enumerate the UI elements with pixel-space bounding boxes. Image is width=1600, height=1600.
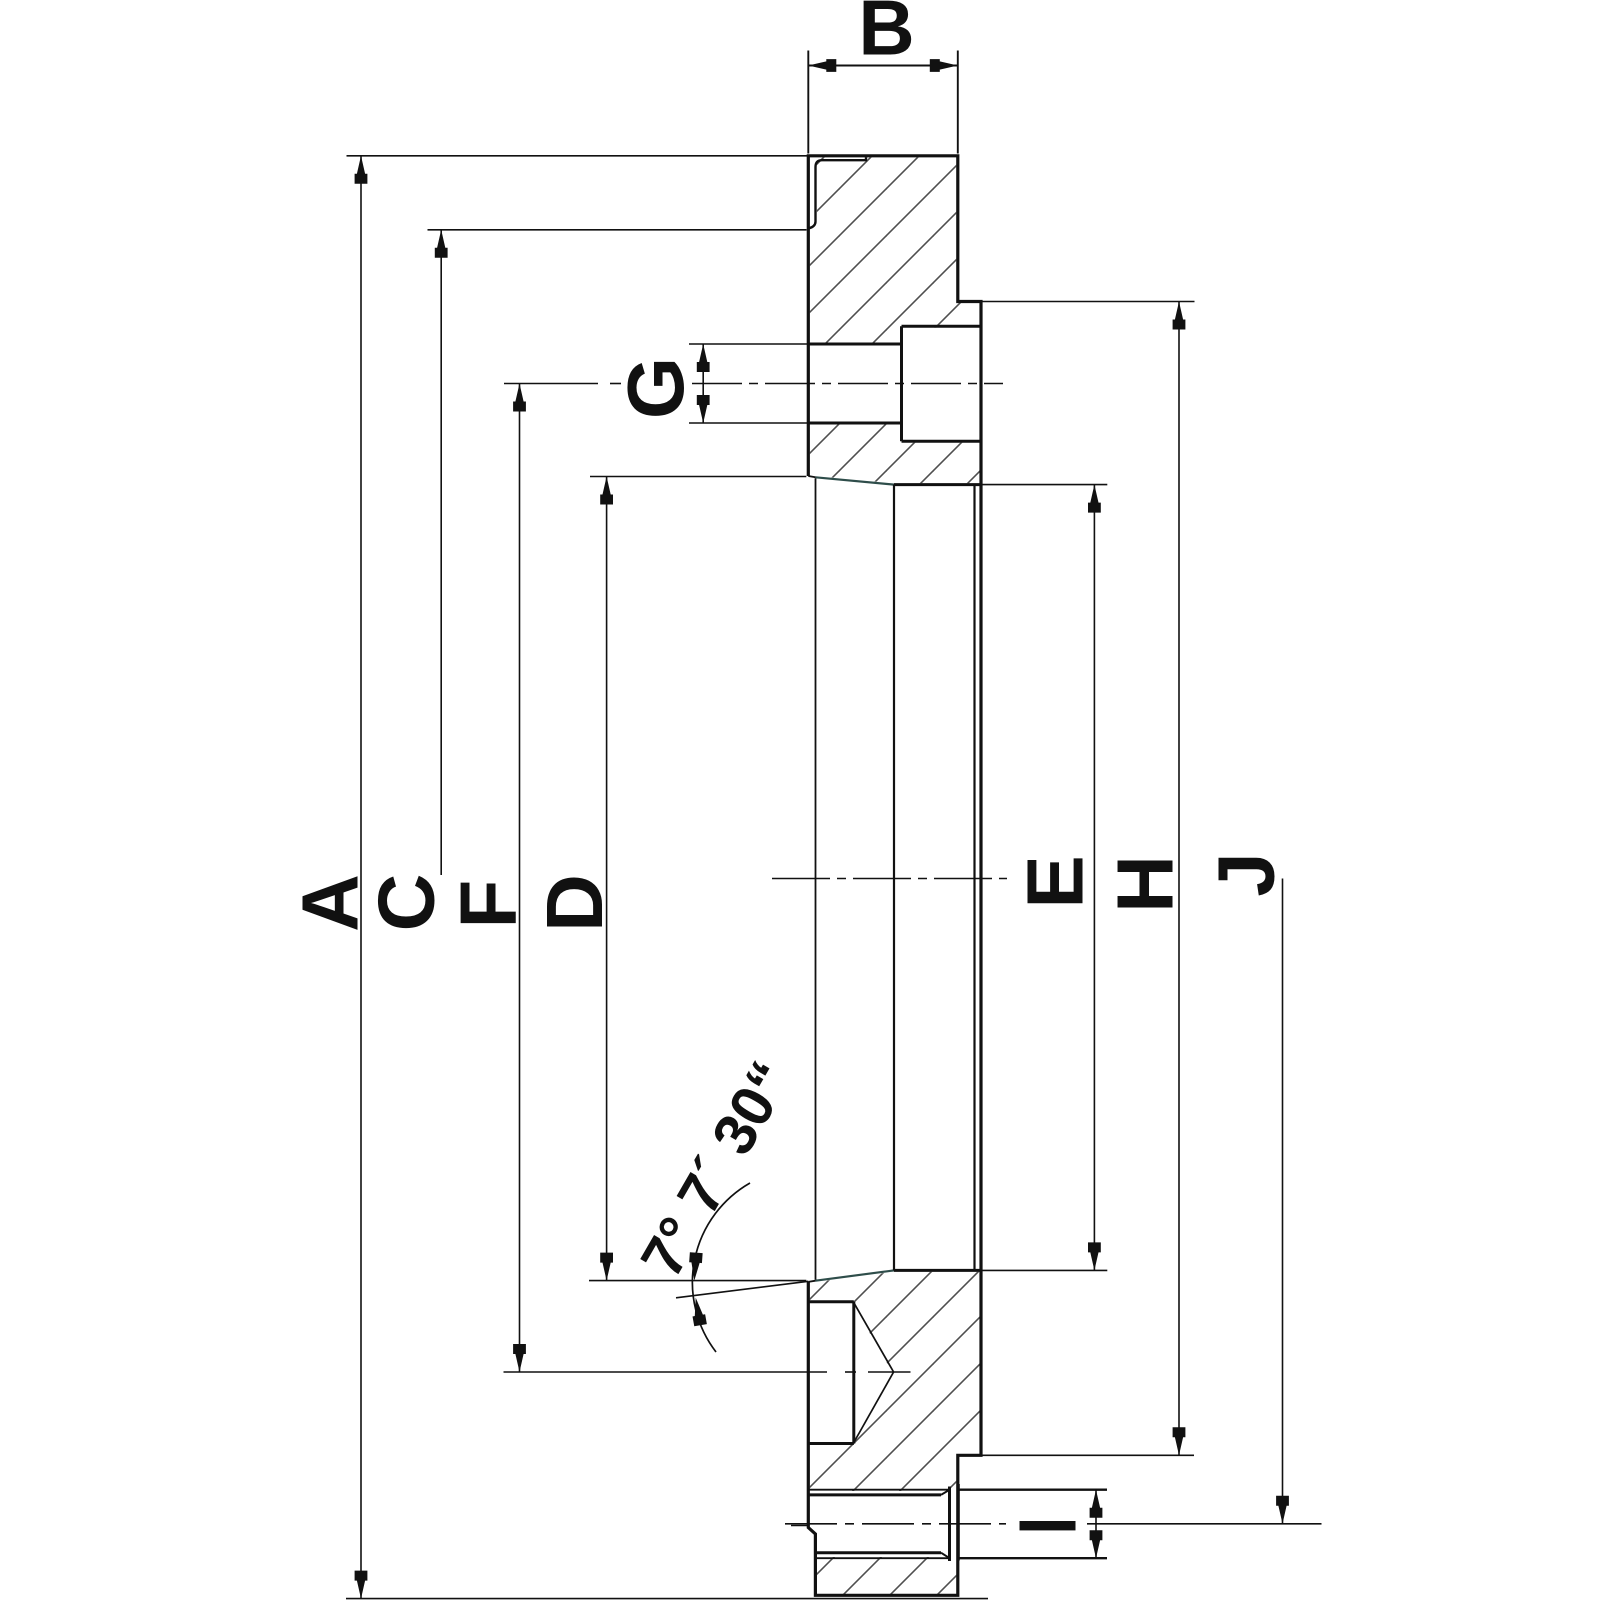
svg-text:B: B: [858, 0, 914, 72]
svg-text:H: H: [1101, 855, 1190, 913]
svg-text:G: G: [611, 357, 700, 419]
svg-text:F: F: [444, 880, 533, 929]
svg-text:E: E: [1011, 855, 1100, 908]
svg-text:D: D: [530, 874, 619, 932]
svg-text:J: J: [1202, 852, 1291, 897]
svg-text:C: C: [362, 874, 451, 932]
